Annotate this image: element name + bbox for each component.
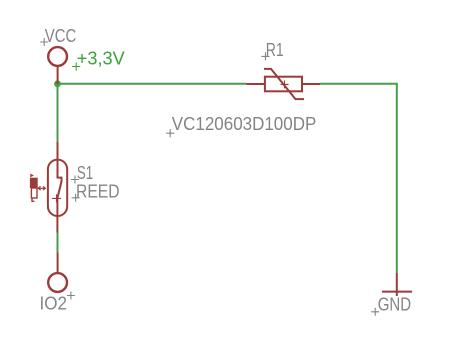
svg-text:VCC: VCC (45, 25, 77, 46)
resistor R1: varistor diagonal stroke (264, 69, 304, 99)
wire: junction to R1 left pin (horizontal) (58, 83, 247, 85)
switch S1: magnet tail (32, 198, 35, 201)
resistor R1: right pin (302, 83, 320, 85)
wire: junction down to S1 top pin (57, 84, 59, 142)
wire: right vertical down to GND pin (396, 84, 398, 273)
svg-text:REED: REED (76, 181, 120, 202)
svg-text:GND: GND (378, 293, 411, 314)
label GND (371, 293, 411, 316)
ground GND: pin stub (396, 273, 398, 296)
switch S1: magnet open half (31, 188, 37, 198)
wire: S1 bottom pin to IO2 pin (57, 233, 59, 253)
switch S1: bottom lead and pin (56, 199, 58, 233)
resistor R1 (varistor): left pin (246, 83, 265, 85)
label VCC (40, 25, 76, 46)
supply VCC: pin circle (48, 47, 67, 66)
ground GND: bar (382, 291, 412, 293)
label IO2 (40, 292, 75, 314)
pin IO2: stub wire (57, 253, 59, 275)
pin IO2: circle (48, 273, 67, 292)
svg-text:VC120603D100DP: VC120603D100DP (172, 113, 316, 134)
svg-text:S1: S1 (77, 162, 93, 183)
resistor R1: origin cross (281, 80, 289, 88)
wire: R1 right pin to right corner (horizontal) (320, 83, 398, 85)
svg-text:+3,3V: +3,3V (77, 47, 126, 68)
switch S1: origin cross (52, 194, 61, 202)
label REED (72, 181, 120, 202)
label R1 (262, 39, 284, 61)
switch S1: magnet flag (30, 174, 34, 178)
label VC120603D100DP value (166, 113, 316, 137)
svg-text:IO2: IO2 (40, 293, 68, 314)
switch S1: top pin (runs into capsule) (57, 142, 59, 179)
label +3,3V net name (72, 47, 125, 70)
supply VCC: pin stub wire (57, 67, 59, 85)
switch S1: glass capsule (48, 160, 67, 216)
switch S1: motion double arrow (38, 186, 45, 190)
switch S1: magnet filled half (30, 178, 38, 188)
switch S1: contact step and blade (57, 178, 61, 199)
label S1 (71, 162, 93, 184)
resistor R1: body rectangle (265, 77, 302, 92)
node: junction dot at VCC tap (54, 80, 61, 87)
